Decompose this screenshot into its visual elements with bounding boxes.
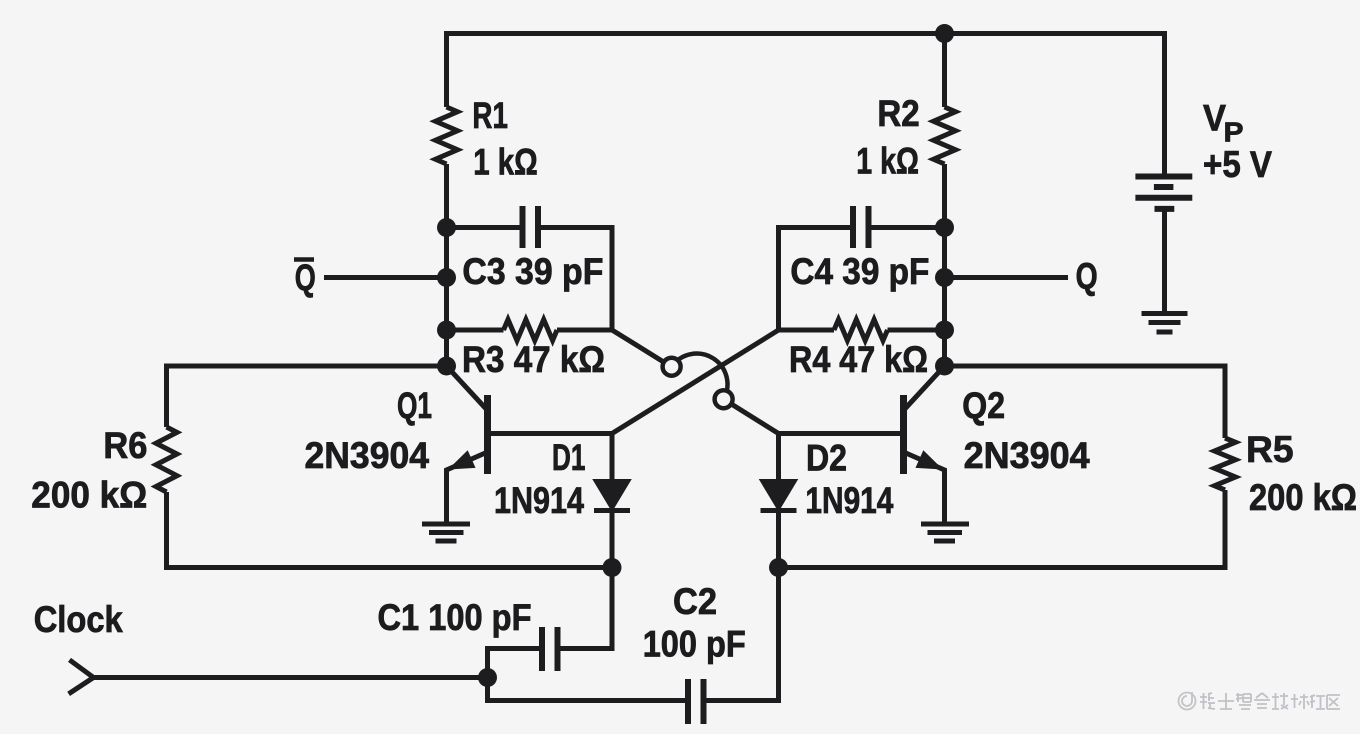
svg-text:R5: R5 (1246, 429, 1294, 470)
clock arrow (69, 660, 94, 694)
svg-text:D1: D1 (552, 437, 585, 478)
resistor R1 (436, 107, 458, 164)
ground (Q2) (921, 524, 969, 541)
svg-text:R4 47 kΩ: R4 47 kΩ (789, 339, 928, 380)
node top rail / R2 (935, 24, 954, 43)
svg-text:R2: R2 (877, 93, 919, 134)
svg-text:2N3904: 2N3904 (964, 435, 1090, 476)
capacitor C3 (447, 206, 613, 330)
node R5 / Q2 collector (935, 357, 954, 376)
node junction dots (437, 24, 954, 687)
svg-text:2N3904: 2N3904 (305, 435, 430, 476)
node clock / C1 / C2 (478, 668, 497, 687)
resistor R4 (779, 320, 945, 341)
label Qbar overbar (294, 257, 314, 262)
node hop circle right (715, 390, 733, 408)
wire clock input (94, 675, 488, 680)
resistor R2 (934, 107, 956, 164)
node hop circle left (663, 358, 681, 376)
node Q (935, 268, 954, 287)
resistor R6 (156, 427, 177, 492)
capacitor C4 (779, 206, 945, 330)
transistor Q1 (447, 366, 613, 522)
wire Qbar output (324, 275, 447, 280)
capacitor C2 (488, 568, 779, 725)
wire battery to ground (1162, 209, 1167, 313)
node R6 / Q1 collector (437, 357, 456, 376)
node R3 left (437, 321, 456, 340)
diode D1 (594, 434, 630, 568)
svg-text:Clock: Clock (34, 599, 123, 640)
svg-text:R3 47 kΩ: R3 47 kΩ (462, 339, 605, 380)
wire hop arc (672, 354, 728, 400)
watermark (1179, 692, 1196, 710)
wire R6 bottom to left rail (167, 492, 613, 568)
svg-text:C1 100 pF: C1 100 pF (378, 597, 532, 638)
svg-text:200 kΩ: 200 kΩ (1249, 477, 1357, 518)
transistor Q2 (779, 366, 945, 522)
svg-text:D2: D2 (806, 438, 847, 479)
wire Q output (945, 275, 1069, 280)
wire top supply rail (447, 31, 1165, 176)
svg-text:Q: Q (1076, 256, 1098, 297)
wire R5 bottom to right rail (779, 490, 1226, 568)
capacitor C1 (488, 568, 613, 678)
wire cross-coupling diagonal (left top to right bottom, with hop) (612, 330, 664, 362)
node D2 bottom (769, 558, 788, 577)
node D1 bottom (603, 558, 622, 577)
wire cross-coupling diagonal (right top to left bottom) (612, 330, 779, 434)
svg-text:1N914: 1N914 (805, 480, 893, 521)
svg-text:Q: Q (295, 257, 316, 298)
wire left collector node vertical (444, 164, 449, 366)
node R4 right (935, 321, 954, 340)
wire R5 branch (945, 366, 1226, 438)
wire hop to right base node (731, 404, 778, 434)
svg-text:1 kΩ: 1 kΩ (473, 142, 538, 183)
svg-text:C2: C2 (673, 581, 717, 622)
wire right collector node vertical (942, 34, 947, 108)
svg-text:Q2: Q2 (962, 385, 1005, 426)
svg-text:C4 39 pF: C4 39 pF (790, 251, 929, 292)
node C3 left (437, 218, 456, 237)
svg-text:P: P (1224, 117, 1244, 148)
ground (battery) (1142, 314, 1188, 333)
svg-text:100 pF: 100 pF (643, 624, 746, 665)
svg-text:1N914: 1N914 (494, 480, 584, 521)
battery V_P (1135, 177, 1192, 209)
resistor R5 (1215, 438, 1236, 490)
svg-text:C3 39 pF: C3 39 pF (462, 251, 603, 292)
svg-text:1 kΩ: 1 kΩ (856, 141, 919, 182)
svg-text:R6: R6 (103, 425, 147, 466)
diode D2 (761, 434, 797, 568)
wire R6 branch (167, 366, 447, 427)
svg-text:200 kΩ: 200 kΩ (31, 475, 147, 516)
svg-text:R1: R1 (472, 95, 508, 136)
node C4 right (935, 218, 954, 237)
node Qbar (437, 268, 456, 287)
svg-text:+5 V: +5 V (1203, 144, 1272, 185)
resistor R3 (447, 320, 613, 341)
svg-text:Q1: Q1 (397, 385, 432, 426)
ground (Q1) (422, 524, 470, 541)
